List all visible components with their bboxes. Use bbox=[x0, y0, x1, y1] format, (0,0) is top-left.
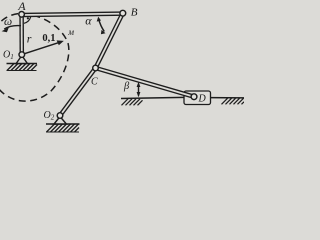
svg-text:A: A bbox=[17, 0, 26, 13]
hatching under guide right edge bbox=[222, 98, 245, 104]
svg-text:α: α bbox=[85, 14, 92, 28]
svg-text:r: r bbox=[27, 32, 32, 46]
svg-text:B: B bbox=[131, 7, 138, 19]
slider block at D bbox=[184, 91, 211, 105]
svg-text:м: м bbox=[67, 27, 74, 37]
pin D bbox=[191, 94, 197, 100]
svg-text:D: D bbox=[198, 94, 207, 105]
rod C-O2 (double line) bbox=[60, 68, 96, 116]
rod CD (double line) bbox=[96, 68, 195, 97]
slider guide line right segment bbox=[211, 97, 245, 99]
pivot support triangle O2 bbox=[54, 117, 66, 125]
alpha angle arc at B bbox=[97, 17, 106, 35]
dashed trajectory circle of point A about O1 bbox=[0, 13, 69, 101]
ground hatch box at O1 bbox=[7, 64, 38, 71]
svg-text:β: β bbox=[123, 81, 130, 92]
right-angle arc with dot at A bbox=[24, 17, 31, 24]
svg-text:ω: ω bbox=[4, 16, 12, 28]
slider guide line left segment bbox=[121, 97, 184, 98]
beta angle double arrow bbox=[137, 82, 141, 98]
pin B bbox=[120, 10, 126, 16]
hatching under guide near beta bbox=[122, 99, 143, 106]
ground hatch box at O2 bbox=[46, 124, 80, 132]
background paper bbox=[0, 0, 244, 133]
svg-text:C: C bbox=[91, 77, 98, 88]
omega rotation arrow bbox=[2, 26, 21, 33]
pin O2 bbox=[57, 113, 63, 119]
pin O1 bbox=[19, 52, 25, 58]
pin C bbox=[93, 65, 99, 71]
pin A bbox=[19, 12, 25, 18]
pivot support triangle O1 bbox=[16, 56, 27, 64]
rod BC (double line) bbox=[96, 13, 123, 68]
crank O1A (double line) bbox=[19, 14, 24, 54]
svg-text:0,1: 0,1 bbox=[42, 33, 55, 44]
bar AB (double line) bbox=[22, 14, 123, 15]
radius arrow r = 0,1 m bbox=[22, 40, 64, 54]
